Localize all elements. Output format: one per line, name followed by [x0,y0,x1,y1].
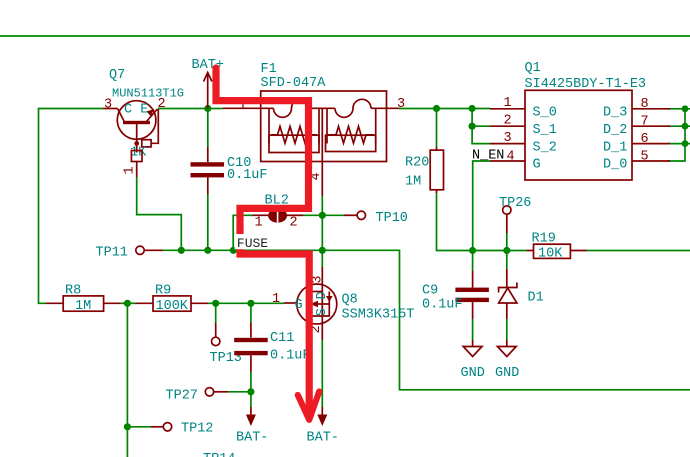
svg-text:S: S [315,308,330,316]
zener diode D1 [499,269,544,319]
svg-text:BAT-: BAT- [307,431,339,446]
capacitor C10 [191,147,268,194]
resistor R20 [405,147,444,193]
svg-text:3: 3 [104,98,112,113]
svg-text:N_EN: N_EN [472,149,504,164]
power symbol BAT- left [236,407,268,446]
svg-text:2: 2 [290,216,298,231]
wire left vertical from Q7 base down to R8 row [39,109,104,304]
wire D1 leads [506,251,508,270]
ferrite bead BL2 [253,194,304,231]
junction Q7 collector on TP11 row [178,247,185,254]
svg-text:R9: R9 [155,284,171,299]
junction C11 bottom [247,388,254,395]
junction C9 top [469,247,476,254]
test point TP13 [210,323,242,366]
test point TP12 [151,422,213,437]
junction C10 on TP11 row [204,247,211,254]
fuse F1 [239,62,406,215]
svg-text:R20: R20 [405,156,429,171]
wire Q8 source down [321,340,323,407]
svg-text:100K: 100K [156,299,189,314]
svg-text:TP10: TP10 [376,211,408,226]
svg-text:10K: 10K [538,247,563,262]
wire TP13 stub [215,303,217,323]
svg-text:Q8: Q8 [342,293,358,308]
ground GND left [461,340,485,381]
junction BAT+ node [204,105,211,112]
svg-text:D: D [315,291,330,299]
wire TP26 stub [506,233,508,251]
svg-text:SFD-047A: SFD-047A [261,76,327,91]
svg-text:BAT-: BAT- [236,431,268,446]
svg-text:Q1: Q1 [525,61,541,76]
wire N_EN net [473,161,490,251]
svg-text:MUN5113T1G: MUN5113T1G [112,87,184,101]
svg-text:1: 1 [123,166,138,174]
svg-text:D1: D1 [528,291,544,306]
svg-text:1: 1 [255,216,263,231]
red annotation current path [216,68,319,420]
ground GND right [495,340,519,381]
svg-text:1K: 1K [130,146,147,161]
svg-text:R8: R8 [65,284,81,299]
power symbol BAT- right [307,407,339,446]
junction TP12 [124,423,131,430]
svg-text:1M: 1M [75,299,91,314]
svg-text:TP27: TP27 [166,389,198,404]
junction D1 row [682,140,689,147]
junction R8-R9 [124,300,131,307]
svg-text:3: 3 [397,97,405,112]
wire R20 bottom to R19 row [437,193,507,251]
wire C9 leads [472,251,474,272]
svg-text:GND: GND [461,366,485,381]
test point TP10 [344,211,408,226]
wire BL2 right to TP10 and down [303,214,344,216]
svg-text:F1: F1 [261,62,277,77]
svg-text:GND: GND [495,366,519,381]
junction D3 row [682,105,689,112]
resistor R8 [46,284,121,315]
svg-text:1: 1 [504,96,512,111]
svg-text:3: 3 [504,131,512,146]
wire top border [0,35,690,37]
IC Q1 [490,61,670,180]
svg-text:D_2: D_2 [603,123,627,138]
svg-text:1M: 1M [405,175,421,190]
junction C11 [247,300,254,307]
wire to pin2 [472,125,490,127]
svg-text:TP11: TP11 [96,246,128,261]
wire Q7 emitter to BAT+ node [158,108,208,110]
wire BL2 left / USE net [233,215,252,250]
test point TP26 [499,196,531,233]
svg-text:0.1uF: 0.1uF [227,168,268,183]
wire TP11 row [163,250,690,389]
svg-text:0.1uF: 0.1uF [422,298,463,313]
svg-text:FUSE: FUSE [237,236,268,251]
resistor R19 [507,232,587,262]
wire Q7 collector jog [137,177,182,250]
junction D2 row [682,123,689,130]
wire C11 top [250,303,252,322]
label USE with white box [235,234,270,251]
svg-text:C11: C11 [270,331,294,346]
wire C11 bottom to BAT- [250,372,252,407]
junction D1 top [503,247,510,254]
mosfet Q8 [272,267,414,340]
capacitor C11 [234,323,310,373]
resistor R9 [136,284,208,315]
svg-text:S_0: S_0 [533,106,557,121]
svg-text:S_2: S_2 [533,140,557,155]
svg-text:4: 4 [507,150,515,165]
wire C10 node [207,109,209,148]
power symbol BAT+ [192,58,224,109]
red annotation arrowhead [298,392,319,420]
wire R8 R9 gate row [121,302,136,304]
svg-text:SSM3K315T: SSM3K315T [342,308,415,323]
junction USE net on TP11 row [230,247,237,254]
svg-text:TP12: TP12 [181,422,213,437]
svg-text:D_3: D_3 [603,106,627,121]
wire F1 pin3 to Q1 S_0 [399,108,490,110]
test point TP27 [166,388,229,404]
junction Q8 drain [319,247,326,254]
wire Q1 S_1 S_2 branch [472,109,490,144]
svg-text:S_1: S_1 [533,123,557,138]
svg-text:2: 2 [504,114,512,129]
svg-text:C9: C9 [422,284,438,299]
junction S1 [469,123,476,130]
wire TP27 stub [228,391,251,393]
svg-text:5: 5 [641,150,649,165]
wire down to R20 [436,109,438,148]
svg-text:R19: R19 [532,232,556,247]
test point TP11 [96,246,164,261]
svg-text:8: 8 [641,97,649,112]
svg-text:G: G [295,298,303,313]
junction TP13 [212,300,219,307]
svg-text:6: 6 [641,132,649,147]
svg-text:SI4425BDY-T1-E3: SI4425BDY-T1-E3 [525,77,647,92]
transistor Q7 [103,68,184,177]
wire R19 to right edge [587,250,690,252]
svg-text:D_0: D_0 [603,158,627,173]
junction BL2 node [319,212,326,219]
wire BAT+ node to F1 pin1 [208,108,223,110]
svg-text:D_1: D_1 [603,140,627,155]
svg-text:C E: C E [124,103,148,118]
capacitor C9 [422,271,489,319]
svg-text:TP14: TP14 [203,452,235,457]
svg-text:1: 1 [272,292,280,307]
svg-text:G: G [533,158,541,173]
svg-text:Q7: Q7 [109,68,125,83]
junction S0 [469,105,476,112]
wire R8 node down to TP12 and bottom [126,303,128,457]
junction F1-R20 [433,105,440,112]
svg-text:7: 7 [641,115,649,130]
svg-text:0.1uF: 0.1uF [270,349,311,364]
wire Q1 right pins to edge [668,108,690,110]
svg-text:TP26: TP26 [499,196,531,211]
